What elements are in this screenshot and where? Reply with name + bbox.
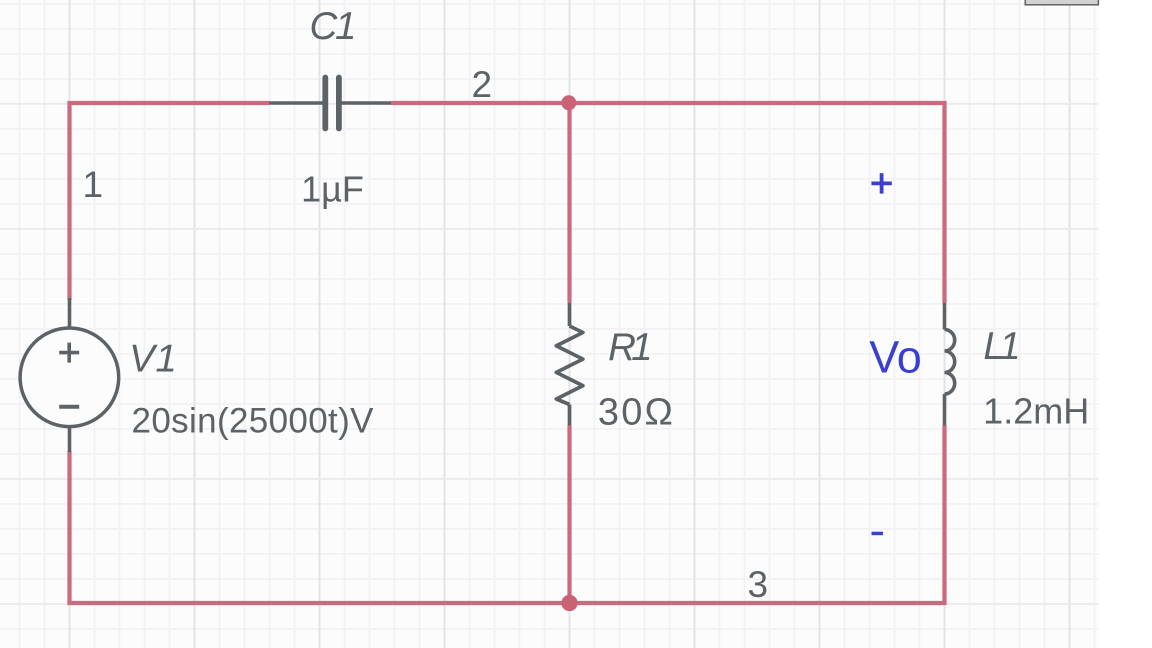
wire bottom loop (70, 426, 945, 604)
svg-text:3: 3 (748, 564, 769, 605)
svg-text:1µF: 1µF (301, 169, 364, 210)
wire top-left segment (70, 103, 270, 300)
resistor R1 (556, 303, 583, 426)
voltage source V1 (20, 298, 119, 452)
svg-text:1: 1 (83, 164, 104, 205)
svg-text:30Ω: 30Ω (598, 391, 675, 433)
svg-text:1.2mH: 1.2mH (983, 390, 1089, 431)
plus sign blue (871, 173, 891, 193)
node dot 3 (561, 595, 577, 611)
node dot 2 (561, 95, 576, 110)
capacitor C1 (269, 78, 391, 129)
minus sign blue (872, 532, 884, 536)
wire top-left loop: node1 top corner (70, 103, 945, 603)
svg-text:20sin(25000t)V: 20sin(25000t)V (132, 401, 375, 440)
svg-text:Vo: Vo (869, 332, 922, 383)
svg-text:V1: V1 (129, 338, 177, 381)
wire middle branch upper (567, 103, 571, 303)
UI scrollbar corner top right (1025, 0, 1098, 5)
inductor L1 (945, 303, 955, 426)
svg-text:2: 2 (472, 64, 493, 105)
svg-text:C1: C1 (309, 5, 354, 48)
wire top-right segment (391, 103, 945, 303)
svg-text:L1: L1 (983, 325, 1018, 368)
wire middle branch lower (567, 426, 571, 604)
svg-text:R1: R1 (608, 326, 650, 369)
